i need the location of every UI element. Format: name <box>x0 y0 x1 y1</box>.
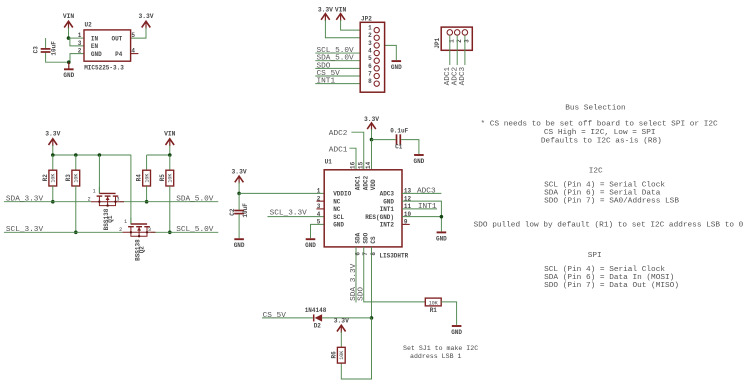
svg-text:SCL_5.0V: SCL_5.0V <box>176 226 214 234</box>
wire C2 to gnd <box>238 214 240 238</box>
svg-text:2: 2 <box>317 195 321 202</box>
wire net SDA_3.3V <box>4 201 91 203</box>
svg-text:VIN: VIN <box>164 130 176 137</box>
svg-text:U2: U2 <box>85 21 93 28</box>
svg-text:10K: 10K <box>51 174 57 183</box>
node rail R5 <box>168 153 172 157</box>
svg-text:CS_5V: CS_5V <box>263 312 287 320</box>
svg-text:3: 3 <box>368 40 372 47</box>
svg-text:8: 8 <box>370 252 377 256</box>
node VIN junction <box>67 36 71 40</box>
transistor Q2 <box>119 218 155 238</box>
wire node to C2 <box>238 193 240 209</box>
svg-text:VIN: VIN <box>335 6 347 13</box>
note I2C body <box>544 182 679 206</box>
svg-text:ADC1: ADC1 <box>329 146 348 154</box>
svg-text:P4: P4 <box>115 51 123 58</box>
svg-text:SCL (Pin 4) = Serial Clock: SCL (Pin 4) = Serial Clock <box>544 182 665 190</box>
svg-text:14: 14 <box>365 161 372 169</box>
op-amp U1 box <box>324 158 402 247</box>
wire net ADC2 to U1 pin15 <box>351 132 363 170</box>
svg-text:1: 1 <box>368 25 372 32</box>
svg-text:3.3V: 3.3V <box>45 130 60 137</box>
node pin10 pin12 gnd <box>440 215 444 219</box>
resistor R3 <box>65 170 80 186</box>
wire R2 top <box>52 155 54 170</box>
svg-text:3.3V: 3.3V <box>318 6 333 13</box>
svg-text:RES(GND): RES(GND) <box>365 214 394 221</box>
ground at C1 <box>413 155 424 165</box>
wire Q2 gate <box>130 155 132 225</box>
wire net ADC1 to U1 pin16 <box>349 148 356 170</box>
note I2C title <box>589 168 603 176</box>
svg-text:9: 9 <box>404 219 408 226</box>
svg-text:GND: GND <box>63 72 74 79</box>
svg-text:NC: NC <box>333 206 341 213</box>
diode D2 <box>305 307 327 329</box>
svg-text:5: 5 <box>368 55 372 62</box>
wire R5 top <box>169 155 171 170</box>
svg-text:INT1: INT1 <box>418 203 437 211</box>
svg-text:D2: D2 <box>314 323 322 330</box>
svg-text:Defaults to I2C as-is (R8): Defaults to I2C as-is (R8) <box>541 138 662 146</box>
U1 bottom pin numbers <box>354 252 377 256</box>
label INT1 <box>317 78 336 86</box>
wire 3.3V to U2 OUT pin5 <box>131 28 146 39</box>
svg-text:GND: GND <box>451 329 462 336</box>
svg-text:5: 5 <box>317 219 321 226</box>
U1 top pin numbers <box>350 161 373 169</box>
svg-text:6: 6 <box>368 63 372 70</box>
svg-text:7: 7 <box>362 252 369 256</box>
U1 pin9 stub <box>402 223 410 225</box>
ground at R1 <box>451 326 462 336</box>
svg-text:3.3V: 3.3V <box>334 318 349 325</box>
node VDD junction <box>370 138 374 142</box>
svg-text:IN: IN <box>91 35 99 42</box>
wire JP2 pin2 to 3.3V <box>325 20 374 38</box>
ground at JP2 pin3 <box>391 61 402 71</box>
svg-text:10K: 10K <box>144 174 150 183</box>
wire C1 to gnd <box>401 140 419 154</box>
wire node to C1 <box>372 139 396 141</box>
wire net SCL_3.3V to U1 pin4 <box>268 216 325 218</box>
label ADC1 <box>444 66 452 85</box>
label ADC1 at U1 <box>329 146 348 154</box>
svg-text:GND: GND <box>413 158 424 165</box>
power 3.3V symbol left of U1 <box>232 168 247 183</box>
svg-text:INT1: INT1 <box>380 206 395 213</box>
wire 3.3V rail <box>53 154 131 156</box>
label SDA_5.0V <box>317 55 355 63</box>
svg-text:SDO pulled low by default (R1): SDO pulled low by default (R1) to set I2… <box>474 221 744 229</box>
svg-text:INT1: INT1 <box>317 78 336 86</box>
power VIN symbol <box>63 13 75 29</box>
svg-text:4: 4 <box>317 211 321 218</box>
svg-text:10K: 10K <box>74 174 80 183</box>
svg-text:VDDIO: VDDIO <box>333 191 351 198</box>
wire net CS_5V <box>262 317 313 319</box>
U1 top pin names <box>355 175 378 190</box>
wire JP1 pin1 ADC1 <box>449 35 451 65</box>
wire R3 bottom <box>75 186 77 232</box>
U1 left pin names <box>333 191 351 229</box>
wire VIN to node <box>68 28 70 39</box>
JP1 pin numbers <box>449 39 471 43</box>
svg-text:SDA_3.3V: SDA_3.3V <box>350 263 358 301</box>
svg-text:SCL_3.3V: SCL_3.3V <box>270 210 308 218</box>
wire U1 pin12 gnd <box>402 201 441 217</box>
node rail R2 <box>51 153 55 157</box>
svg-text:1: 1 <box>317 188 321 195</box>
wire 3.3V to VDD node <box>371 129 373 140</box>
node R2 SDA <box>51 200 55 204</box>
svg-text:7: 7 <box>368 70 372 77</box>
wire JP1 pin3 ADC3 <box>464 35 466 65</box>
svg-text:GND: GND <box>391 64 402 71</box>
svg-text:address LSB 1: address LSB 1 <box>410 353 461 360</box>
wire net SDO from pin7 <box>364 247 426 302</box>
svg-text:CS High = I2C, Low = SPI: CS High = I2C, Low = SPI <box>544 129 656 137</box>
svg-text:ADC2: ADC2 <box>362 175 369 190</box>
svg-text:I2C: I2C <box>589 168 603 176</box>
note SPI title <box>588 252 602 260</box>
node R4 SDA5 <box>145 200 149 204</box>
wire node to U2 EN pin3 <box>70 38 84 46</box>
wire 3.3V to R6 <box>340 331 342 347</box>
svg-text:GND: GND <box>436 235 447 242</box>
svg-text:10uF: 10uF <box>242 203 249 218</box>
connector JP1 <box>434 27 472 50</box>
label ADC3 at U1 <box>417 187 436 195</box>
wire node to U1 pin1 <box>239 192 324 194</box>
svg-text:2: 2 <box>88 197 91 203</box>
svg-text:ADC2: ADC2 <box>329 130 348 138</box>
label Q1 <box>103 208 114 230</box>
wire R3 top <box>75 155 77 170</box>
svg-text:U1: U1 <box>325 158 333 165</box>
wire cap C3 bottom to gnd node <box>46 53 70 62</box>
svg-text:C3: C3 <box>33 46 40 54</box>
svg-text:8: 8 <box>368 78 372 85</box>
svg-text:1N4148: 1N4148 <box>305 307 327 314</box>
svg-text:* CS needs to be set off board: * CS needs to be set off board to select… <box>481 120 719 128</box>
svg-text:JP2: JP2 <box>361 15 372 22</box>
label INT1 at U1 <box>418 203 437 211</box>
svg-text:2: 2 <box>368 32 372 39</box>
node GND junction <box>67 60 71 64</box>
ground under regulator <box>63 62 74 79</box>
svg-text:GND: GND <box>383 198 394 205</box>
wire Q1 gate <box>98 155 100 193</box>
svg-text:R2: R2 <box>42 174 49 182</box>
svg-text:C2: C2 <box>229 208 236 216</box>
note bus selection title <box>565 105 625 113</box>
svg-text:GND: GND <box>305 242 316 249</box>
wire U1 pin5 gnd <box>311 224 325 238</box>
note SPI body <box>544 266 679 290</box>
wire CS node down to R6 loop <box>341 318 371 379</box>
svg-text:2: 2 <box>78 48 82 55</box>
U1 right pin names <box>365 191 394 229</box>
svg-text:Q1: Q1 <box>107 215 114 223</box>
svg-text:10uF: 10uF <box>51 41 58 56</box>
note bus selection body <box>481 120 719 145</box>
wire net SCL_5.0V <box>315 52 374 54</box>
label SDA_3.3V <box>6 196 44 204</box>
svg-text:ADC3: ADC3 <box>459 66 467 85</box>
node CS junction <box>370 316 374 320</box>
wire cap C3 top <box>45 38 47 48</box>
node pin1 junction <box>237 192 241 196</box>
wire net INT1 pin11 <box>402 208 437 210</box>
svg-text:OUT: OUT <box>111 35 122 42</box>
svg-text:R1: R1 <box>430 307 438 314</box>
resistor R5 <box>159 170 174 186</box>
U1 left pin numbers <box>317 188 321 226</box>
svg-text:R3: R3 <box>65 174 72 182</box>
U2 pin4 stub <box>131 53 139 55</box>
svg-text:SCL: SCL <box>333 214 344 221</box>
label SCL_5.0V right <box>176 226 214 234</box>
svg-text:GND: GND <box>234 242 245 249</box>
resistor R2 <box>42 170 57 186</box>
svg-text:LIS3DHTR: LIS3DHTR <box>379 253 408 260</box>
capacitor C2 <box>229 203 249 218</box>
label CS_5V <box>317 70 341 78</box>
resistor R4 <box>136 170 151 186</box>
node rail Q1 gate <box>98 153 102 157</box>
svg-text:Q2: Q2 <box>139 246 146 254</box>
label SDO <box>317 62 331 70</box>
svg-text:10K: 10K <box>429 300 438 306</box>
wire R4 top <box>146 155 148 170</box>
label SDA_3.3V vertical <box>350 263 358 301</box>
wire R2 bottom <box>52 186 54 202</box>
node R5 SCL5 <box>168 231 172 235</box>
wire U1 pin10 gnd <box>402 217 441 232</box>
svg-text:SCL (Pin 4) = Serial Clock: SCL (Pin 4) = Serial Clock <box>544 266 665 274</box>
wire net INT1 <box>315 83 374 85</box>
svg-text:EN: EN <box>91 43 99 50</box>
wire 3.3V stem <box>52 145 54 155</box>
wire U2 GND pin2 down <box>70 54 84 63</box>
note SDO pulled low <box>474 221 744 229</box>
svg-text:3: 3 <box>317 203 321 210</box>
transistor Q1 <box>88 187 124 207</box>
wire node to U2 IN pin1 <box>69 37 85 39</box>
svg-text:SDA (Pin 6) = Serial Data: SDA (Pin 6) = Serial Data <box>544 190 661 198</box>
JP2 pin numbers <box>368 25 372 86</box>
ground under C2 <box>234 239 245 249</box>
label SDA_5.0V right <box>176 196 214 204</box>
resistor R6 <box>330 347 345 363</box>
wire net CS_5V <box>315 75 374 77</box>
wire VDD node to U1 pin14 <box>371 140 373 170</box>
svg-text:4: 4 <box>368 47 372 54</box>
svg-text:SCL_3.3V: SCL_3.3V <box>6 226 44 234</box>
label CS_5V <box>263 312 287 320</box>
wire R1 to gnd <box>441 302 456 325</box>
svg-text:15: 15 <box>357 161 364 169</box>
power 3.3V symbol at JP2 <box>318 6 333 21</box>
wire 3.3V to pin1 node <box>238 182 240 193</box>
op-amp U2 box <box>84 21 131 61</box>
svg-text:Set SJ1 to make I2C: Set SJ1 to make I2C <box>403 345 478 352</box>
svg-text:SDO (Pin 7) = SA0/Address LSB: SDO (Pin 7) = SA0/Address LSB <box>544 197 679 205</box>
wire net SDA_5.0V <box>315 60 374 62</box>
svg-text:SDA_3.3V: SDA_3.3V <box>6 196 44 204</box>
svg-text:16: 16 <box>350 161 357 169</box>
U1 value label <box>379 253 408 260</box>
svg-text:ADC1: ADC1 <box>355 175 362 190</box>
label ADC3 <box>459 66 467 85</box>
wire net CS from pin8 <box>371 247 373 318</box>
wire net SDA_3.3V from pin6 <box>355 247 357 303</box>
svg-text:GND: GND <box>333 222 344 229</box>
svg-text:3: 3 <box>78 40 82 47</box>
svg-text:ADC3: ADC3 <box>417 187 436 195</box>
svg-text:1: 1 <box>124 219 127 225</box>
U1 left pin stubs <box>316 201 324 209</box>
svg-text:SDO (Pin 7) = Data Out (MISO): SDO (Pin 7) = Data Out (MISO) <box>544 282 679 290</box>
svg-text:SDO: SDO <box>362 232 369 243</box>
wire JP1 pin2 ADC2 <box>456 35 458 65</box>
svg-text:JP1: JP1 <box>434 37 441 48</box>
svg-text:R4: R4 <box>136 174 143 182</box>
wire D2 to CS node <box>322 317 371 319</box>
U2 pin names <box>91 35 123 58</box>
svg-text:10K: 10K <box>168 174 174 183</box>
svg-text:NC: NC <box>333 198 341 205</box>
svg-text:SDO: SDO <box>358 287 366 301</box>
wire net SCL_5.0V right <box>151 231 218 233</box>
ground right of U1 <box>436 232 447 242</box>
svg-text:SDA: SDA <box>355 232 362 243</box>
node rail R3 <box>74 153 78 157</box>
svg-text:3.3V: 3.3V <box>232 168 247 175</box>
svg-text:2: 2 <box>119 227 122 233</box>
label SCL_3.3V <box>6 226 44 234</box>
power 3.3V symbol at shifter <box>45 130 60 146</box>
svg-text:6: 6 <box>354 252 361 256</box>
svg-text:1: 1 <box>78 32 82 39</box>
svg-text:MIC5225-3.3: MIC5225-3.3 <box>84 64 124 71</box>
svg-text:SPI: SPI <box>588 252 602 260</box>
wire VIN stem <box>169 145 171 155</box>
svg-text:SDA_5.0V: SDA_5.0V <box>176 196 214 204</box>
U2 pin numbers <box>78 32 136 55</box>
resistor R1 <box>425 298 441 314</box>
capacitor C1 <box>390 128 408 151</box>
svg-text:5: 5 <box>131 32 135 39</box>
wire R5 bottom <box>169 186 171 232</box>
U1 bottom pin names <box>355 232 378 243</box>
svg-text:0.1uF: 0.1uF <box>390 128 408 135</box>
power 3.3V symbol at regulator output <box>138 13 153 29</box>
label ADC2 <box>451 66 459 85</box>
svg-text:ADC3: ADC3 <box>380 191 395 198</box>
power 3.3V symbol above U1 <box>364 116 379 131</box>
wire net ADC3 pin13 <box>402 192 441 194</box>
wire R4 bottom <box>146 186 148 202</box>
svg-text:3: 3 <box>117 197 120 203</box>
label SCL_3.3V at U1 <box>270 210 308 218</box>
wire VIN rail <box>147 154 170 156</box>
svg-text:3.3V: 3.3V <box>138 13 153 20</box>
wire JP2 pin1 to VIN <box>341 20 374 30</box>
label Q2 <box>135 239 146 261</box>
svg-text:C1: C1 <box>395 143 403 150</box>
ground under U1 pin5 <box>305 239 316 249</box>
svg-text:SDA (Pin 6) = Data In (MOSI): SDA (Pin 6) = Data In (MOSI) <box>544 274 674 282</box>
svg-text:R6: R6 <box>330 351 337 359</box>
svg-text:INT2: INT2 <box>380 222 395 229</box>
svg-text:1: 1 <box>93 189 96 195</box>
U2 value label <box>84 64 124 71</box>
node R3 SCL <box>74 231 78 235</box>
svg-text:R5: R5 <box>159 174 166 182</box>
power 3.3V symbol at R6 <box>334 318 349 333</box>
note SJ1 <box>403 345 478 360</box>
wire net SDA_5.0V right <box>120 201 219 203</box>
svg-text:10K: 10K <box>339 351 345 360</box>
capacitor C3 <box>33 41 58 56</box>
power VIN symbol at JP2 <box>335 6 347 21</box>
wire net SDO <box>315 67 374 69</box>
svg-text:GND: GND <box>91 51 102 58</box>
power VIN symbol at shifter <box>164 130 176 146</box>
connector JP2 <box>360 15 384 92</box>
U1 right pin numbers <box>404 188 412 226</box>
wire JP2 pin3 to gnd <box>379 45 396 60</box>
svg-text:Bus Selection: Bus Selection <box>565 105 625 113</box>
svg-text:3: 3 <box>148 227 151 233</box>
label SDO vertical <box>358 287 366 301</box>
label SCL_5.0V <box>317 47 355 55</box>
svg-text:VIN: VIN <box>63 13 75 20</box>
svg-text:VDD: VDD <box>370 179 377 190</box>
svg-text:CS: CS <box>370 236 377 244</box>
label ADC2 at U1 <box>329 130 348 138</box>
wire net SCL_3.3V <box>4 231 123 233</box>
